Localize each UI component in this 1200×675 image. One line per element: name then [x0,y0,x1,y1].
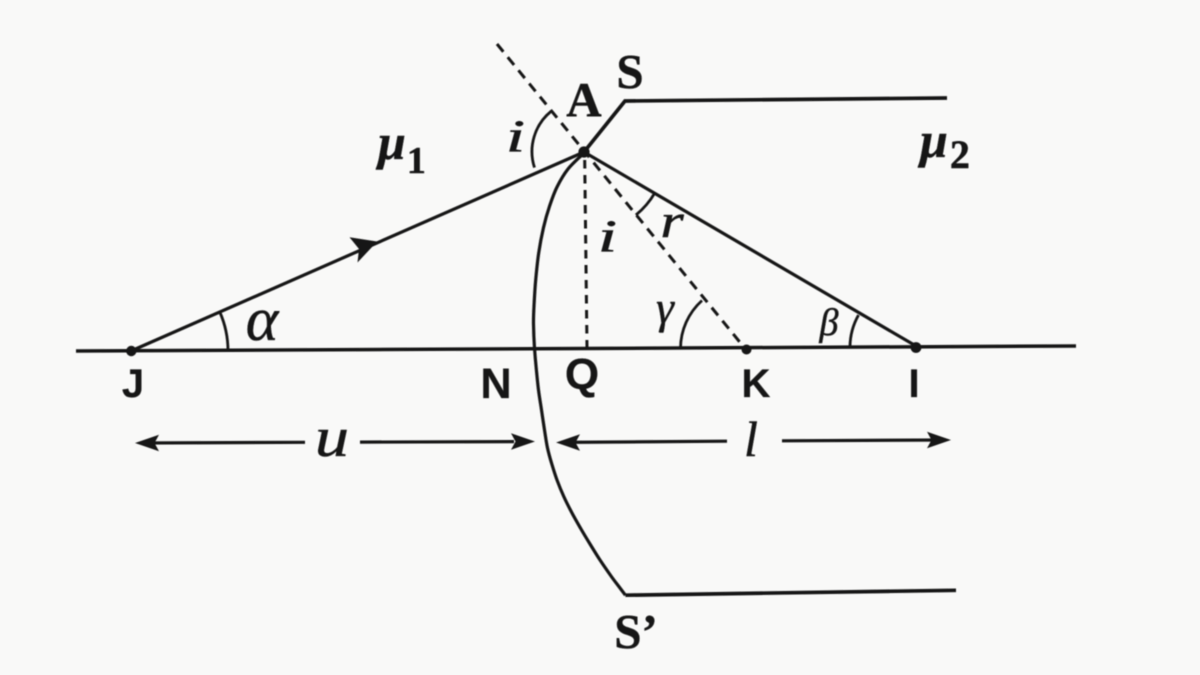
dashed normal line through A to K [497,44,745,349]
svg-text:i: i [506,112,525,162]
svg-text:i: i [598,212,617,262]
svg-text:γ: γ [656,283,675,333]
dimension arrow l (right span) [556,432,951,451]
svg-text:β: β [819,302,839,344]
svg-text:S’: S’ [614,604,658,659]
svg-text:N: N [480,360,511,408]
incident ray J to A [131,152,584,351]
angle arc alpha at J [220,312,228,351]
bottom surface boundary line from S' [625,590,956,595]
dot at point I [911,342,922,353]
angle arc r at A (refracted) [636,193,655,215]
angle arc gamma at K [681,301,703,349]
svg-text:l: l [744,411,758,467]
dashed vertical line A to Q [585,160,587,348]
label i (incident angle) [506,112,525,162]
angle arc beta at I [850,315,859,347]
label u [315,406,349,469]
svg-text:α: α [246,286,280,354]
svg-text:I: I [908,362,919,406]
svg-text:r: r [660,195,684,248]
label r (refraction angle) [660,195,684,248]
svg-text:μ1: μ1 [375,114,426,182]
dot at point K [742,345,752,355]
svg-text:S: S [616,44,643,99]
svg-text:K: K [742,362,771,406]
svg-text:u: u [315,406,349,469]
svg-text:Q: Q [565,350,599,399]
label i (angle at A with vertical) [598,212,617,262]
svg-text:μ2: μ2 [917,112,970,177]
refracted ray A to I [584,152,916,346]
refracting curved surface arc S-N-S' [533,153,625,595]
angle arc i at A (incident) [532,111,551,168]
svg-text:J: J [122,362,144,406]
top surface boundary line to S [584,98,947,152]
svg-text:A: A [566,72,602,127]
principal axis line J-N-Q-K-I [76,346,1076,351]
dot at point A [578,146,589,157]
dot at point J [126,346,136,356]
dimension arrow u (left span) [135,433,535,451]
arrowhead on incident ray [350,237,378,262]
